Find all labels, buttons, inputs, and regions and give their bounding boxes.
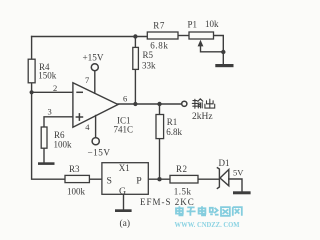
svg-text:R2: R2 <box>176 164 188 174</box>
svg-text:EFM-S 2KC: EFM-S 2KC <box>140 197 195 207</box>
svg-text:10k: 10k <box>205 19 219 29</box>
svg-text:WWW. CNDZZ. COM: WWW. CNDZZ. COM <box>175 220 240 229</box>
svg-text:6.8k: 6.8k <box>166 127 182 137</box>
svg-text:G: G <box>119 186 126 197</box>
svg-text:R1: R1 <box>167 117 178 127</box>
svg-text:4: 4 <box>85 122 90 132</box>
svg-text:R7: R7 <box>153 20 165 30</box>
svg-text:3: 3 <box>48 107 52 117</box>
svg-text:100k: 100k <box>54 140 73 150</box>
svg-text:D1: D1 <box>219 158 230 168</box>
svg-text:100k: 100k <box>67 186 86 196</box>
svg-text:6: 6 <box>123 94 127 104</box>
svg-text:5V: 5V <box>233 168 244 178</box>
svg-text:X1: X1 <box>119 163 130 173</box>
svg-text:R6: R6 <box>54 130 65 140</box>
svg-text:741C: 741C <box>114 125 134 135</box>
svg-text:150k: 150k <box>38 71 57 81</box>
svg-text:6.8k: 6.8k <box>150 41 168 51</box>
svg-text:1.5k: 1.5k <box>174 187 192 197</box>
svg-text:P1: P1 <box>188 19 198 29</box>
svg-text:S: S <box>107 176 112 187</box>
svg-text:−15V: −15V <box>88 148 111 158</box>
svg-text:(a): (a) <box>120 218 131 229</box>
svg-text:2kHz: 2kHz <box>192 112 213 122</box>
svg-text:R5: R5 <box>143 50 154 60</box>
svg-text:7: 7 <box>85 75 89 85</box>
svg-text:+15V: +15V <box>83 52 104 62</box>
svg-text:2: 2 <box>53 83 57 93</box>
svg-text:P: P <box>136 176 142 187</box>
svg-text:R3: R3 <box>69 164 80 174</box>
svg-text:33k: 33k <box>142 61 156 71</box>
